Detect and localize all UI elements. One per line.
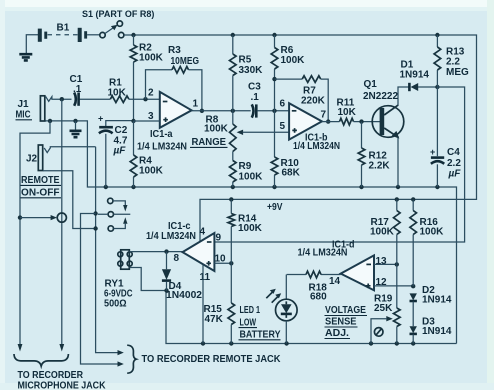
wire C4 sense line to IC1-c pin 9 xyxy=(214,87,464,242)
node Q1 base junction xyxy=(359,119,363,123)
op-amp U1d IC1-d xyxy=(298,240,388,291)
potentiometer R19 25K (voltage sense adj.) xyxy=(371,264,400,343)
wire plug arrow into tip line xyxy=(20,213,66,222)
svg-text:2.2K: 2.2K xyxy=(369,161,391,172)
svg-text:9: 9 xyxy=(216,233,222,244)
svg-text:68K: 68K xyxy=(282,168,301,179)
svg-text:100K: 100K xyxy=(370,227,395,238)
op-amp U1c IC1-c xyxy=(146,221,226,283)
svg-text:LOW: LOW xyxy=(240,317,257,328)
svg-text:1N914: 1N914 xyxy=(422,326,452,337)
svg-text:SENSE: SENSE xyxy=(325,317,357,328)
svg-text:5: 5 xyxy=(280,121,286,132)
svg-text:1/4 LM324N: 1/4 LM324N xyxy=(298,248,348,259)
node relay contact bus junctions xyxy=(93,211,97,230)
resistor R10 xyxy=(271,111,300,187)
label voltage sense adj xyxy=(325,305,368,339)
node D4 anode junction xyxy=(164,249,168,253)
svg-text:220K: 220K xyxy=(301,96,326,107)
wire bottom ground bus xyxy=(166,291,457,344)
node bottom bus junctions xyxy=(201,341,416,345)
svg-text:13: 13 xyxy=(376,256,388,267)
resistor R17 xyxy=(370,199,400,264)
svg-text:1/4 LM324N: 1/4 LM324N xyxy=(137,142,187,153)
svg-text:3: 3 xyxy=(148,111,154,122)
wire armature line to recorder remote (with arrow) xyxy=(81,214,124,367)
node IC1-b pin 7 junction xyxy=(326,119,330,123)
svg-text:100K: 100K xyxy=(139,166,164,177)
resistor R14 xyxy=(228,199,263,263)
resistor R13 xyxy=(434,35,469,87)
svg-text:Q1: Q1 xyxy=(364,79,378,90)
capacitor C2 xyxy=(98,114,134,188)
wire J1 tip to recorder (second long line) xyxy=(59,99,64,351)
svg-text:IC1-a: IC1-a xyxy=(150,129,173,140)
svg-text:100K: 100K xyxy=(204,124,229,135)
jack J1 MIC xyxy=(16,96,62,121)
svg-text:10K: 10K xyxy=(108,88,127,99)
node IC1-d pin 13 junction xyxy=(395,262,399,266)
svg-text:100K: 100K xyxy=(238,223,263,234)
svg-text:100K: 100K xyxy=(239,172,264,183)
svg-text:.1: .1 xyxy=(251,92,260,103)
svg-text:REMOTE: REMOTE xyxy=(21,175,60,186)
transistor Q1 2N2222 xyxy=(363,79,409,187)
svg-text:7: 7 xyxy=(321,110,327,121)
node IC1-b pin 6 junction xyxy=(272,109,276,113)
svg-text:+: + xyxy=(98,114,103,124)
switch S1 (part of R8) xyxy=(82,9,154,38)
node R5/R8 junction xyxy=(231,109,235,113)
svg-text:R9: R9 xyxy=(239,161,252,172)
svg-text:C2: C2 xyxy=(115,125,128,136)
node IC1-c pin 10 junction xyxy=(229,261,233,265)
svg-text:25K: 25K xyxy=(374,303,393,314)
wire IC1-c pin 11 to ground bus xyxy=(202,265,204,344)
resistor R11 xyxy=(322,98,380,125)
wire IC1-c pin 10 stub xyxy=(214,262,231,264)
op-amp U1a IC1-a xyxy=(137,88,199,153)
battery B1 xyxy=(38,23,100,43)
svg-text:47K: 47K xyxy=(205,314,224,325)
svg-text:B1: B1 xyxy=(57,23,70,34)
svg-text:LED 1: LED 1 xyxy=(240,305,261,316)
node IC1-a pin 1 junction xyxy=(200,109,204,113)
svg-text:1: 1 xyxy=(193,99,199,110)
svg-text:1N4002: 1N4002 xyxy=(166,290,202,301)
svg-text:8: 8 xyxy=(174,253,180,264)
resistor R18 xyxy=(287,271,341,302)
svg-text:6: 6 xyxy=(280,99,286,110)
svg-text:2N2222: 2N2222 xyxy=(363,91,398,102)
node top bus junctions xyxy=(131,33,439,37)
svg-text:100K: 100K xyxy=(420,227,445,238)
label to recorder microphone jack xyxy=(14,354,106,390)
svg-text:1/4 LM324N: 1/4 LM324N xyxy=(146,231,196,242)
svg-text:.1: .1 xyxy=(73,84,82,95)
wire IC1-a pin 3 stub xyxy=(134,120,160,122)
svg-text:ON-OFF: ON-OFF xyxy=(21,188,60,199)
resistor R15 xyxy=(204,263,235,343)
svg-text:10K: 10K xyxy=(338,107,357,118)
svg-text:1/4 LM324N: 1/4 LM324N xyxy=(293,141,340,152)
svg-text:11: 11 xyxy=(200,272,211,283)
ground (battery) xyxy=(19,35,39,61)
diode D3 1N914 xyxy=(410,317,452,344)
op-amp U1b IC1-b xyxy=(280,99,341,153)
LED1 LOW BATTERY xyxy=(239,275,298,344)
node ground rail junctions xyxy=(104,185,440,189)
wire IC1-d pin 12 stub xyxy=(374,285,413,287)
svg-text:RANGE: RANGE xyxy=(192,137,227,148)
wire J2 sleeve to relay contact xyxy=(43,171,96,229)
node J1 tip junction xyxy=(60,97,64,101)
svg-text:+9V: +9V xyxy=(267,202,283,213)
resistor R3 (feedback) xyxy=(146,45,202,111)
node D4 cathode junction xyxy=(164,288,168,292)
svg-text:100K: 100K xyxy=(281,55,306,66)
resistor R5 xyxy=(230,35,264,111)
svg-text:4: 4 xyxy=(200,227,206,238)
label to recorder remote jack xyxy=(127,345,281,373)
wire IC1-d pin 13 stub xyxy=(374,263,397,265)
svg-text:MICROPHONE JACK: MICROPHONE JACK xyxy=(18,380,106,390)
svg-text:VOLTAGE: VOLTAGE xyxy=(325,305,366,316)
svg-text:2.2: 2.2 xyxy=(446,57,460,68)
node IC1-a pin 2 junction xyxy=(143,97,147,101)
resistor R1 xyxy=(108,78,160,103)
node J1 sleeve junctions xyxy=(48,119,78,123)
capacitor C4 xyxy=(430,87,461,187)
svg-text:2.2: 2.2 xyxy=(447,158,461,169)
svg-text:14: 14 xyxy=(329,276,341,287)
svg-text:1N914: 1N914 xyxy=(422,295,452,306)
diode D2 1N914 xyxy=(410,285,452,326)
relay RY1 contacts xyxy=(98,198,130,231)
svg-text:S1 (PART OF R8): S1 (PART OF R8) xyxy=(82,9,154,19)
node plug tap on sleeve line xyxy=(18,215,22,219)
svg-text:500Ω: 500Ω xyxy=(104,299,127,310)
svg-text:µF: µF xyxy=(448,169,462,180)
svg-text:MIC: MIC xyxy=(16,110,31,121)
wire J2 tip bus down to recorder remote (with arrow) xyxy=(96,147,124,355)
relay RY1 coil xyxy=(104,250,166,310)
potentiometer R8 RANGE xyxy=(190,111,289,161)
svg-text:BATTERY: BATTERY xyxy=(240,329,281,340)
svg-text:J1: J1 xyxy=(18,99,30,110)
svg-text:C3: C3 xyxy=(248,82,261,93)
node +9V rail junctions xyxy=(229,197,415,213)
wire J1 sleeve to recorder (left long line) xyxy=(18,121,50,352)
svg-text:ADJ.: ADJ. xyxy=(325,328,349,339)
svg-text:R5: R5 xyxy=(239,55,252,66)
wire IC1-a output xyxy=(192,110,251,112)
resistor R7 (feedback) xyxy=(275,76,329,122)
node IC1-a pin 3 junction xyxy=(131,119,135,123)
resistor R12 xyxy=(358,122,390,187)
svg-text:+: + xyxy=(430,147,435,157)
wire ground rail (middle) xyxy=(45,121,457,344)
resistor R9 xyxy=(230,161,264,188)
wire IC1-c pin 8 output to coil xyxy=(130,251,183,253)
svg-text:R3: R3 xyxy=(168,45,181,56)
ground (J1 sleeve) xyxy=(70,121,82,137)
resistor R2 xyxy=(130,35,163,121)
diode D1 1N914 xyxy=(400,60,438,92)
capacitor C1 xyxy=(62,74,111,106)
svg-text:MEG: MEG xyxy=(446,67,469,78)
svg-text:2: 2 xyxy=(148,88,154,99)
resistor R16 xyxy=(410,199,444,286)
svg-text:µF: µF xyxy=(113,146,127,157)
svg-text:680: 680 xyxy=(310,292,327,303)
svg-text:J2: J2 xyxy=(26,154,38,165)
svg-text:TO RECORDER REMOTE JACK: TO RECORDER REMOTE JACK xyxy=(142,353,281,365)
node R7 tap junction xyxy=(272,77,276,81)
resistor R6 xyxy=(271,35,305,111)
capacitor C3 xyxy=(248,82,289,118)
svg-text:1N914: 1N914 xyxy=(400,70,430,81)
svg-text:100K: 100K xyxy=(139,53,164,64)
svg-text:C4: C4 xyxy=(447,147,460,158)
diode D4 1N4002 xyxy=(162,252,203,301)
svg-text:330K: 330K xyxy=(239,65,264,76)
wire +9V top bus / right edge / +9V rail / IC1-c pin 4 xyxy=(124,35,477,242)
node IC1-d pin 12 junction xyxy=(411,284,415,288)
node D1/R13/C4 junction xyxy=(435,85,439,89)
svg-text:10MEG: 10MEG xyxy=(171,56,200,67)
jack J2 REMOTE ON-OFF xyxy=(21,145,96,199)
resistor R4 xyxy=(130,121,163,187)
